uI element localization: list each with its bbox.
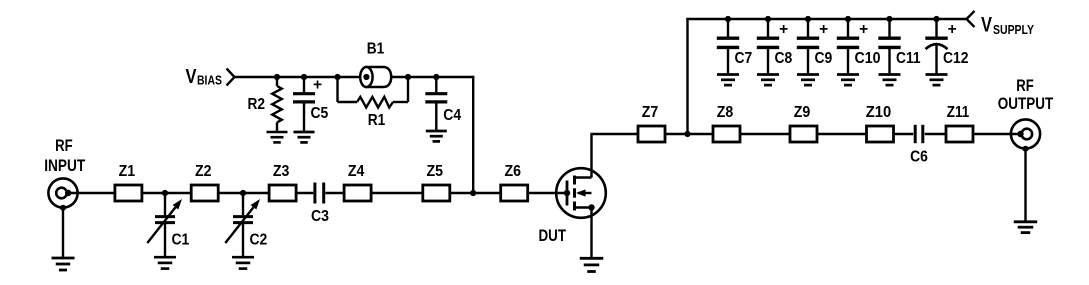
capacitor C8 <box>757 19 779 74</box>
ferrite bead B1 <box>338 67 409 87</box>
junction at J1 shield <box>60 205 66 211</box>
svg-text:C1: C1 <box>172 232 190 249</box>
impedance element Z1 <box>115 185 142 201</box>
ground of R2 <box>267 132 288 142</box>
svg-text:Z1: Z1 <box>119 163 136 180</box>
ground of C1 <box>154 257 176 268</box>
pin dot of J2 <box>1017 131 1023 137</box>
ground at DUT source <box>580 258 604 271</box>
capacitor C12 <box>925 19 947 74</box>
svg-text:C12: C12 <box>943 50 969 67</box>
wire <box>71 192 115 194</box>
node supply junction at C12 <box>933 16 939 22</box>
svg-text:R1: R1 <box>368 112 386 129</box>
svg-text:Z4: Z4 <box>348 163 365 180</box>
ground of C12 <box>926 75 948 86</box>
impedance element Z11 <box>946 126 973 142</box>
wire <box>371 192 423 194</box>
wire <box>894 133 914 135</box>
wire <box>688 133 714 135</box>
connector J2 RF OUTPUT <box>1011 119 1040 148</box>
wire <box>243 192 269 194</box>
svg-text:Z7: Z7 <box>642 104 659 121</box>
svg-text:C9: C9 <box>815 50 833 67</box>
svg-text:INPUT: INPUT <box>44 157 85 175</box>
ground of C2 <box>232 257 254 268</box>
svg-text:Z8: Z8 <box>717 104 734 121</box>
svg-text:+: + <box>859 21 868 38</box>
svg-text:C5: C5 <box>311 105 329 122</box>
node B1/R1 right <box>405 74 411 80</box>
svg-text:+: + <box>779 21 788 38</box>
impedance element Z8 <box>713 126 740 142</box>
svg-text:Z6: Z6 <box>504 163 521 180</box>
wire <box>973 133 1020 135</box>
node bias feed junction <box>470 190 476 196</box>
wire bias feed down <box>472 76 474 193</box>
wire <box>1024 149 1026 221</box>
capacitor C2 (variable) <box>225 193 260 257</box>
wire <box>408 76 436 78</box>
svg-text:C8: C8 <box>775 50 793 67</box>
node junction at C2 <box>240 190 246 196</box>
svg-text:C7: C7 <box>735 50 753 67</box>
wire <box>436 76 474 78</box>
junction at J2 shield <box>1023 146 1029 152</box>
node supply junction at C8 <box>765 16 771 22</box>
svg-text:Z2: Z2 <box>195 163 212 180</box>
node bias junction at C4 <box>433 74 439 80</box>
capacitor C11 <box>878 19 900 74</box>
ground at RF INPUT <box>52 258 75 270</box>
svg-text:C3: C3 <box>311 208 329 225</box>
wire <box>740 133 790 135</box>
svg-text:C11: C11 <box>896 50 921 67</box>
node supply feed junction <box>684 131 690 137</box>
capacitor C1 (variable) <box>147 193 182 257</box>
capacitor C10 <box>837 19 859 74</box>
svg-text:Z9: Z9 <box>794 104 811 121</box>
capacitor C9 <box>797 19 819 74</box>
svg-text:R2: R2 <box>248 96 266 113</box>
svg-text:C4: C4 <box>443 107 461 124</box>
wire <box>925 133 946 135</box>
ground of C11 <box>879 75 901 86</box>
wire <box>325 192 344 194</box>
svg-text:V: V <box>981 14 992 37</box>
svg-text:+: + <box>819 21 828 38</box>
wire DUT source to ground <box>590 208 592 258</box>
svg-text:B1: B1 <box>367 41 385 58</box>
impedance element Z5 <box>423 185 450 201</box>
ground at RF OUTPUT <box>1014 222 1038 233</box>
wire <box>277 76 304 78</box>
svg-text:C10: C10 <box>855 50 881 67</box>
connector J1 RF INPUT <box>48 178 77 207</box>
terminal V_BIAS <box>227 69 235 86</box>
svg-text:C6: C6 <box>910 149 928 166</box>
wire supply feed riser <box>686 18 688 134</box>
capacitor C4 <box>425 77 447 131</box>
impedance element Z9 <box>790 126 817 142</box>
ground of C8 <box>757 75 779 86</box>
svg-text:Z10: Z10 <box>866 104 892 121</box>
node B1/R1 left <box>334 74 340 80</box>
wire <box>817 133 867 135</box>
wire DUT drain riser <box>590 134 592 178</box>
svg-text:+: + <box>313 76 322 93</box>
svg-text:V: V <box>186 66 198 88</box>
svg-text:RF: RF <box>1016 77 1034 95</box>
node supply junction at C10 <box>845 16 851 22</box>
svg-text:BIAS: BIAS <box>197 73 222 88</box>
node bias junction at R2 <box>274 74 280 80</box>
svg-text:Z11: Z11 <box>947 104 970 121</box>
impedance element Z3 <box>269 185 296 201</box>
svg-text:C2: C2 <box>250 232 268 249</box>
resistor R2 <box>272 77 282 131</box>
capacitor C5 <box>293 77 315 131</box>
ground of C4 <box>426 131 447 141</box>
ground of C10 <box>837 75 859 86</box>
svg-text:SUPPLY: SUPPLY <box>993 22 1034 37</box>
svg-text:Z5: Z5 <box>427 163 444 180</box>
node supply junction at C11 <box>886 16 892 22</box>
terminal V_SUPPLY <box>967 11 975 27</box>
node junction at C1 <box>162 190 168 196</box>
capacitor C6 <box>915 125 923 143</box>
transistor DUT (MOSFET) <box>556 168 606 218</box>
node supply junction at C9 <box>805 16 811 22</box>
wire <box>62 208 64 257</box>
node bias junction at C5 <box>301 74 307 80</box>
impedance element Z2 <box>191 185 218 201</box>
capacitor C7 <box>717 19 739 74</box>
wire <box>218 192 243 194</box>
wire <box>296 192 313 194</box>
wire <box>450 192 473 194</box>
impedance element Z4 <box>344 185 371 201</box>
wire <box>473 192 501 194</box>
svg-text:RF: RF <box>55 137 73 155</box>
pin dot of J1 <box>65 190 71 196</box>
capacitor C3 <box>315 183 324 204</box>
wire <box>304 76 338 78</box>
wire <box>165 192 191 194</box>
wire <box>142 192 165 194</box>
svg-text:Z3: Z3 <box>273 163 290 180</box>
svg-text:+: + <box>948 21 957 38</box>
resistor R1 (parallel with B1) <box>338 77 409 108</box>
impedance element Z7 <box>638 126 665 142</box>
svg-text:OUTPUT: OUTPUT <box>998 95 1054 113</box>
wire <box>665 133 688 135</box>
node supply junction at C7 <box>725 16 731 22</box>
wire <box>528 192 567 194</box>
ground of C7 <box>717 75 739 86</box>
wire <box>686 18 966 20</box>
wire <box>235 76 278 78</box>
wire <box>590 133 638 135</box>
impedance element Z10 <box>867 126 894 142</box>
impedance element Z6 <box>501 185 528 201</box>
ground of C5 <box>294 132 315 142</box>
svg-text:DUT: DUT <box>539 227 567 245</box>
ground of C9 <box>797 75 819 86</box>
